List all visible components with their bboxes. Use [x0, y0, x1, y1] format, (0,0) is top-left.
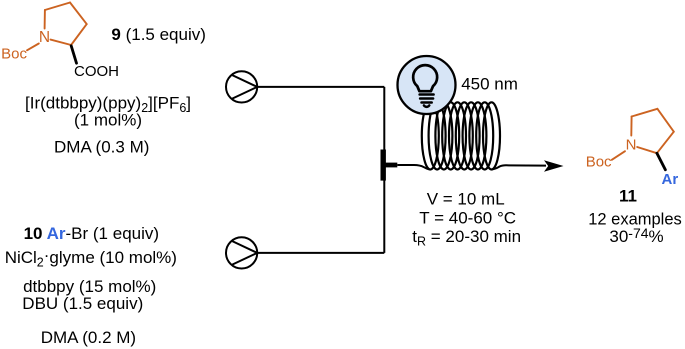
light bulb screw thread lines	[420, 95, 434, 103]
product 11 pyrrolidine ring	[631, 109, 674, 153]
light bulb circle	[398, 56, 456, 114]
product 11 N-Boc bond	[612, 151, 625, 160]
svg-text:Boc: Boc	[586, 154, 612, 171]
svg-text:DMA (0.3 M): DMA (0.3 M)	[54, 137, 149, 156]
svg-text:450 nm: 450 nm	[461, 75, 518, 94]
pump P2 circle	[226, 237, 257, 268]
wire mixer to coil	[397, 165, 430, 170]
coil reactor loops	[422, 102, 500, 169]
pump P1 circle	[226, 71, 257, 102]
svg-text:(1 mol%): (1 mol%)	[74, 111, 142, 130]
svg-text:N: N	[39, 29, 50, 46]
svg-text:Boc: Boc	[1, 46, 27, 63]
product 11 C2-Ar bold bond	[657, 153, 666, 170]
light bulb contact tip	[424, 105, 429, 107]
svg-text:N: N	[626, 136, 637, 153]
svg-text:COOH: COOH	[74, 63, 119, 80]
svg-text:DMA (0.2 M): DMA (0.2 M)	[41, 328, 136, 347]
wire coil to arrow	[492, 165, 547, 169]
svg-text:10 Ar-Br (1 equiv): 10 Ar-Br (1 equiv)	[24, 224, 159, 243]
wire pump P1 to mixer	[257, 86, 384, 88]
svg-text:T = 40-60 °C: T = 40-60 °C	[419, 208, 516, 227]
wire vertical manifold	[383, 87, 385, 253]
arrowhead	[544, 160, 564, 172]
reactant 9 pyrrolidine ring	[45, 3, 87, 46]
svg-text:DBU (1.5 equiv): DBU (1.5 equiv)	[22, 294, 143, 313]
svg-text:tR = 20-30 min: tR = 20-30 min	[412, 227, 521, 249]
svg-text:V = 10 mL: V = 10 mL	[427, 190, 505, 209]
T-mixer bar	[381, 150, 386, 181]
svg-text:Ar: Ar	[662, 171, 679, 188]
light bulb glass	[413, 65, 437, 91]
T-mixer outlet stub	[383, 163, 397, 168]
pump P1 triangle	[232, 75, 258, 99]
reactant 9 C2-COOH bold bond	[71, 46, 76, 63]
svg-text:30-74%: 30-74%	[609, 225, 663, 246]
svg-text:11: 11	[619, 187, 637, 206]
reactant 9 N-Boc bond	[27, 44, 39, 51]
svg-text:NiCl2·glyme (10 mol%): NiCl2·glyme (10 mol%)	[5, 245, 177, 269]
pump P2 triangle	[232, 241, 258, 265]
wire pump P2 to mixer	[257, 252, 384, 254]
svg-text:9 (1.5 equiv): 9 (1.5 equiv)	[111, 25, 206, 44]
